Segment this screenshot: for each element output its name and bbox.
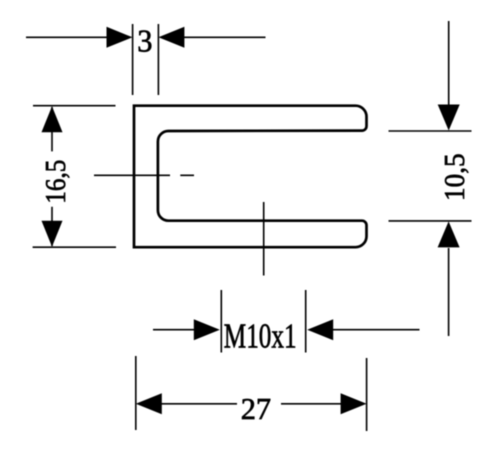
dim 27: extension line left: [135, 356, 137, 430]
dim 16,5: top extension line: [33, 105, 116, 107]
dim M10x1: arrowhead left-pointing: [307, 319, 333, 340]
dim 10,5: top extension line: [389, 130, 472, 132]
dim 3: arrowhead right-pointing: [107, 27, 133, 48]
centerline vertical (M10 hole axis): [263, 202, 265, 276]
svg-text:27: 27: [241, 392, 271, 426]
dim 3: extension line right: [157, 24, 159, 95]
dim 27: arrowhead left-pointing: [136, 393, 162, 414]
dim 10,5: arrowhead up: [438, 221, 460, 247]
centerline horizontal (opening axis): [94, 174, 194, 176]
dim M10x1: left leader line: [153, 329, 197, 331]
dim 27: dimension line segments: [160, 403, 342, 405]
dim 16,5: arrowhead up: [42, 106, 63, 132]
dim 27: arrowhead right-pointing: [341, 393, 367, 414]
dim 16,5: arrowhead down: [42, 221, 63, 247]
dim 16,5: dimension line segments: [51, 107, 53, 246]
dim 10,5: upper shaft: [448, 21, 450, 106]
dim 27: extension line right: [366, 358, 368, 431]
svg-text:M10x1: M10x1: [224, 317, 297, 356]
dim M10x1: arrowhead right-pointing: [194, 319, 220, 340]
dim 3: left leader line: [26, 36, 112, 38]
dim 3: right leader line: [179, 36, 266, 38]
svg-text:3: 3: [137, 23, 152, 59]
dim 3: extension line left: [132, 24, 134, 95]
dim 10,5: arrowhead down: [438, 105, 460, 131]
svg-text:16,5: 16,5: [39, 160, 71, 204]
dim 10,5: bottom extension line: [389, 220, 472, 222]
dim M10x1: extension line left: [220, 290, 222, 353]
dim 10,5: lower shaft: [448, 248, 450, 336]
dim M10x1: extension line right: [305, 290, 307, 353]
U-profile body outline: [134, 106, 367, 248]
svg-text:10,5: 10,5: [439, 153, 470, 201]
dim 16,5: bottom extension line: [33, 246, 116, 248]
dim 3: arrowhead left-pointing: [158, 27, 184, 48]
dim M10x1: right leader line: [330, 329, 420, 331]
